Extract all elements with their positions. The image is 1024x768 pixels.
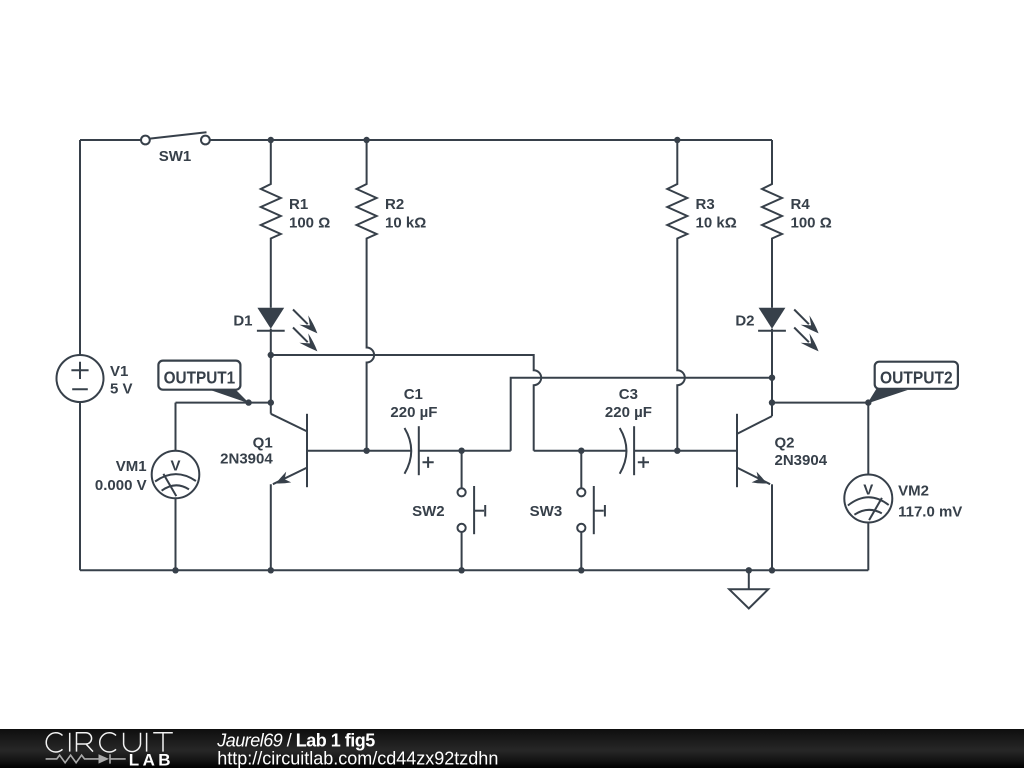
- svg-text:10 kΩ: 10 kΩ: [385, 215, 426, 232]
- svg-text:10 kΩ: 10 kΩ: [696, 215, 737, 232]
- junction SW2 bottom on ground rail: [458, 567, 464, 573]
- svg-text:V: V: [170, 458, 180, 475]
- flag OUTPUT1: [158, 361, 249, 404]
- svg-text:VM1: VM1: [116, 458, 147, 475]
- switch SW1: [141, 132, 210, 165]
- junction R2 bottom / Q1 base: [363, 448, 369, 454]
- junction C1 plus / SW2 top: [458, 448, 464, 454]
- resistor R1: [261, 140, 330, 308]
- junction R3 bottom / C3 plus: [674, 448, 680, 454]
- svg-text:C1: C1: [404, 386, 423, 403]
- wire top rail left segment: [80, 139, 141, 141]
- wire bottom rail: [80, 569, 868, 571]
- svg-text:OUTPUT2: OUTPUT2: [880, 367, 953, 387]
- LED D2: [735, 308, 818, 416]
- svg-text:Q2: Q2: [775, 435, 795, 452]
- wire OUTPUT1 node row: [176, 403, 271, 414]
- svg-text:SW1: SW1: [159, 148, 192, 165]
- resistor R2 (lead hops over wire at y=355): [357, 140, 427, 451]
- svg-text:VM2: VM2: [898, 483, 929, 500]
- transistor Q1 (mirrored NPN): [220, 414, 307, 571]
- CircuitLab logo CIRCUIT: [46, 733, 173, 752]
- svg-text:LAB: LAB: [129, 750, 174, 768]
- svg-text:Q1: Q1: [253, 434, 273, 451]
- svg-text:http://circuitlab.com/cd44zx92: http://circuitlab.com/cd44zx92tzdhn: [217, 749, 498, 768]
- svg-text:D1: D1: [233, 313, 252, 330]
- svg-text:100 Ω: 100 Ω: [791, 215, 832, 232]
- pushbutton SW2: [412, 451, 485, 571]
- capacitor C3: [534, 386, 737, 475]
- wire left rail lower: [79, 402, 81, 570]
- junction VM1 bottom on ground rail: [172, 567, 178, 573]
- wire cross-coupling Q1 collector to C3 (hops at y=377.7): [271, 355, 541, 451]
- voltage source V1: [57, 355, 133, 402]
- svg-text:R2: R2: [385, 196, 404, 213]
- svg-text:220 µF: 220 µF: [605, 404, 652, 421]
- svg-text:V: V: [863, 482, 873, 499]
- wire OUTPUT2 node row: [772, 403, 868, 475]
- junction OUTPUT1 flag tip: [245, 399, 251, 405]
- junction SW3 bottom on ground rail: [578, 567, 584, 573]
- svg-text:5 V: 5 V: [110, 381, 133, 398]
- ground: [729, 570, 768, 608]
- wire Q2 collector row to C1+: [511, 378, 772, 451]
- junction ground stub on rail: [746, 567, 752, 573]
- svg-text:2N3904: 2N3904: [775, 452, 828, 469]
- svg-text:R3: R3: [696, 196, 715, 213]
- junction R2 top on V+ rail: [363, 137, 369, 143]
- svg-text:D2: D2: [735, 313, 754, 330]
- resistor R4: [762, 140, 832, 308]
- footer bar: [0, 729, 1024, 768]
- svg-text:0.000 V: 0.000 V: [95, 477, 147, 494]
- svg-text:117.0 mV: 117.0 mV: [898, 503, 962, 520]
- voltmeter VM2: [844, 475, 962, 571]
- svg-text:C3: C3: [619, 386, 638, 403]
- junction OUTPUT1 node at Q1 collector drop: [268, 399, 274, 405]
- junction SW3 top / C3 left: [578, 448, 584, 454]
- junction Q1 emitter on ground rail: [268, 567, 274, 573]
- svg-text:220 µF: 220 µF: [390, 404, 437, 421]
- LED D1: [233, 308, 317, 355]
- junction OUTPUT2 node at Q2 collector drop: [769, 399, 775, 405]
- wire top rail from SW1 to R4: [210, 139, 772, 141]
- flag OUTPUT2: [867, 362, 958, 404]
- svg-text:2N3904: 2N3904: [220, 451, 273, 468]
- junction R3 top on V+ rail: [674, 137, 680, 143]
- svg-text:SW2: SW2: [412, 503, 445, 520]
- transistor Q2 (NPN): [737, 414, 828, 571]
- junction Q2 emitter on ground rail: [769, 567, 775, 573]
- junction OUTPUT2 flag tip / VM2 top: [865, 399, 871, 405]
- svg-text:OUTPUT1: OUTPUT1: [164, 367, 236, 387]
- svg-text:Jaurel69 / Lab 1 fig5: Jaurel69 / Lab 1 fig5: [216, 731, 375, 751]
- pushbutton SW3: [530, 451, 605, 571]
- junction D2 cathode / Q2 collector node: [769, 375, 775, 381]
- svg-text:100 Ω: 100 Ω: [289, 215, 330, 232]
- wire D1 node into Q1: [270, 355, 272, 403]
- svg-text:V1: V1: [110, 363, 128, 380]
- junction R1 top on V+ rail: [268, 137, 274, 143]
- wire VM1 top drop: [175, 403, 177, 451]
- svg-text:R1: R1: [289, 196, 308, 213]
- capacitor C1: [307, 386, 511, 475]
- junction D1 cathode / Q1 collector node: [268, 352, 274, 358]
- CircuitLab logo resistor-diode glyph: [46, 754, 126, 763]
- resistor R3 (lead hops over wire at y=377.7): [667, 140, 736, 451]
- svg-text:SW3: SW3: [530, 503, 563, 520]
- wire left rail upper: [79, 140, 81, 355]
- svg-text:R4: R4: [791, 196, 811, 213]
- voltmeter VM1: [95, 451, 199, 571]
